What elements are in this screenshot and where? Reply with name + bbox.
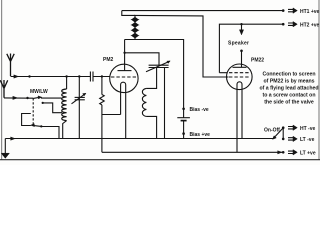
node lower contact [40, 125, 42, 127]
wire HT2 screen stub into V2 [219, 72, 227, 74]
speaker upper terminal [241, 24, 243, 30]
node anode / reaction junction [123, 52, 125, 54]
wire R1 bottom to filament line [102, 105, 121, 152]
switch S1 lower pole frame [22, 114, 31, 126]
arrowhead on A2 wire [13, 96, 18, 99]
antenna A2 [0, 80, 7, 98]
wire anode to reaction condenser [125, 53, 159, 65]
resistor R1 (grid leak) [101, 77, 103, 95]
variable capacitor VC2 (reaction condenser) [146, 61, 170, 72]
antenna A1 [7, 54, 14, 77]
svg-text:PM2: PM2 [103, 57, 114, 63]
node LT+ve terminal [278, 151, 282, 154]
valve V1 anode [118, 64, 132, 70]
svg-text:of PM22 is by means: of PM22 is by means [263, 79, 314, 85]
wire VC2 to reaction coil L2 [146, 68, 156, 89]
plug HT -ve [288, 125, 297, 130]
valve V2 filament [237, 82, 242, 153]
arrowhead on earth bus [11, 137, 16, 140]
valve V2 control grid (dashed) [229, 76, 249, 78]
wire HT2 rail [219, 24, 283, 72]
node LT-ve terminal [282, 138, 285, 141]
node grid line / tuning capacitor junction [78, 75, 80, 77]
wire C1 to grid of V1 [93, 76, 110, 78]
arrowhead on A1 wire [14, 75, 19, 78]
plug LT +ve [288, 150, 297, 155]
wire LT+ve bus [102, 151, 283, 153]
note text about screen connection [259, 72, 318, 106]
svg-text:LT +ve: LT +ve [300, 151, 316, 157]
wire transformer secondary bottom to bias [134, 40, 184, 109]
speaker lower terminal [240, 50, 243, 53]
svg-text:LT -ve: LT -ve [300, 137, 315, 143]
plug HT2 [288, 22, 297, 27]
valve V2 anode [233, 66, 247, 68]
switch S1 lower arm [33, 125, 42, 126]
wire bias to bus [183, 134, 185, 139]
node speaker tap on HT2 rail [240, 23, 242, 25]
svg-text:PM22: PM22 [251, 58, 264, 64]
wire coil L1 bottom to bus [63, 121, 67, 139]
transformer T1 (LF transformer windings) [122, 11, 135, 40]
svg-text:of a flying lead attached: of a flying lead attached [259, 86, 318, 92]
node HT1 terminal [282, 9, 285, 12]
svg-text:HT1 +ve: HT1 +ve [300, 9, 320, 15]
svg-text:the side of the valve: the side of the valve [264, 100, 314, 106]
plug LT -ve [288, 136, 297, 141]
wire HT1 rail [122, 10, 283, 12]
wire V1 anode lead up [124, 40, 126, 65]
svg-text:HT -ve: HT -ve [300, 126, 316, 132]
valve V1 PM2 envelope [110, 64, 138, 92]
coil L2 (reaction) [142, 88, 146, 116]
wire aerial A2 to switch [4, 97, 33, 99]
wire speaker to V2 anode top cap [241, 51, 243, 68]
svg-text:MW/LW: MW/LW [30, 89, 48, 95]
valve V1 grid (dashed) [111, 76, 137, 78]
variable capacitor VC1 (tuning) [72, 93, 87, 104]
capacitor C1 (grid condenser) [90, 72, 93, 82]
battery GB (grid bias) [182, 108, 185, 111]
switch S1 upper arm [33, 97, 39, 98]
svg-text:Connection to screen: Connection to screen [262, 72, 315, 78]
node HT2 terminal [282, 23, 285, 26]
wire grid line down to coil L1 [66, 77, 68, 90]
svg-text:Bias +ve: Bias +ve [190, 132, 211, 138]
svg-text:HT2 +ve: HT2 +ve [300, 22, 320, 28]
plug HT1 [288, 8, 297, 13]
wire upper contact to coil tap [43, 103, 62, 113]
wire grid line through VC1 to bus [78, 77, 80, 139]
valve V2 screen grid (dashed) [229, 72, 249, 74]
node grid leak junction [101, 75, 103, 77]
wire VC2 right plate to bus [164, 68, 166, 139]
ground earth [4, 139, 6, 154]
node upper contact [42, 102, 44, 104]
border frame [2, 0, 319, 160]
svg-text:On-Off: On-Off [264, 128, 280, 134]
wire L2 bottom to bus [146, 116, 156, 138]
valve V2 PM22 envelope [227, 64, 253, 90]
wire HT-ve to LT-ve link [282, 128, 284, 139]
wire switch top throw to coil top tap [41, 97, 62, 99]
wire transformer secondary top to V2 grid [134, 15, 229, 77]
wire aerial A1 to grid line [11, 76, 91, 78]
svg-text:Speaker: Speaker [228, 41, 249, 47]
wire lower contact to bus [41, 127, 59, 139]
node grid line / coil junction [65, 75, 67, 77]
wire earth bus LT-ve [5, 138, 273, 140]
valve V1 filament [121, 82, 126, 138]
svg-text:Bias -ve: Bias -ve [190, 107, 209, 113]
svg-text:to a screw contact on: to a screw contact on [262, 93, 315, 99]
coil L1 (aerial tuning coil) [62, 89, 67, 121]
switch S1 wave-change dashed link [32, 98, 34, 125]
